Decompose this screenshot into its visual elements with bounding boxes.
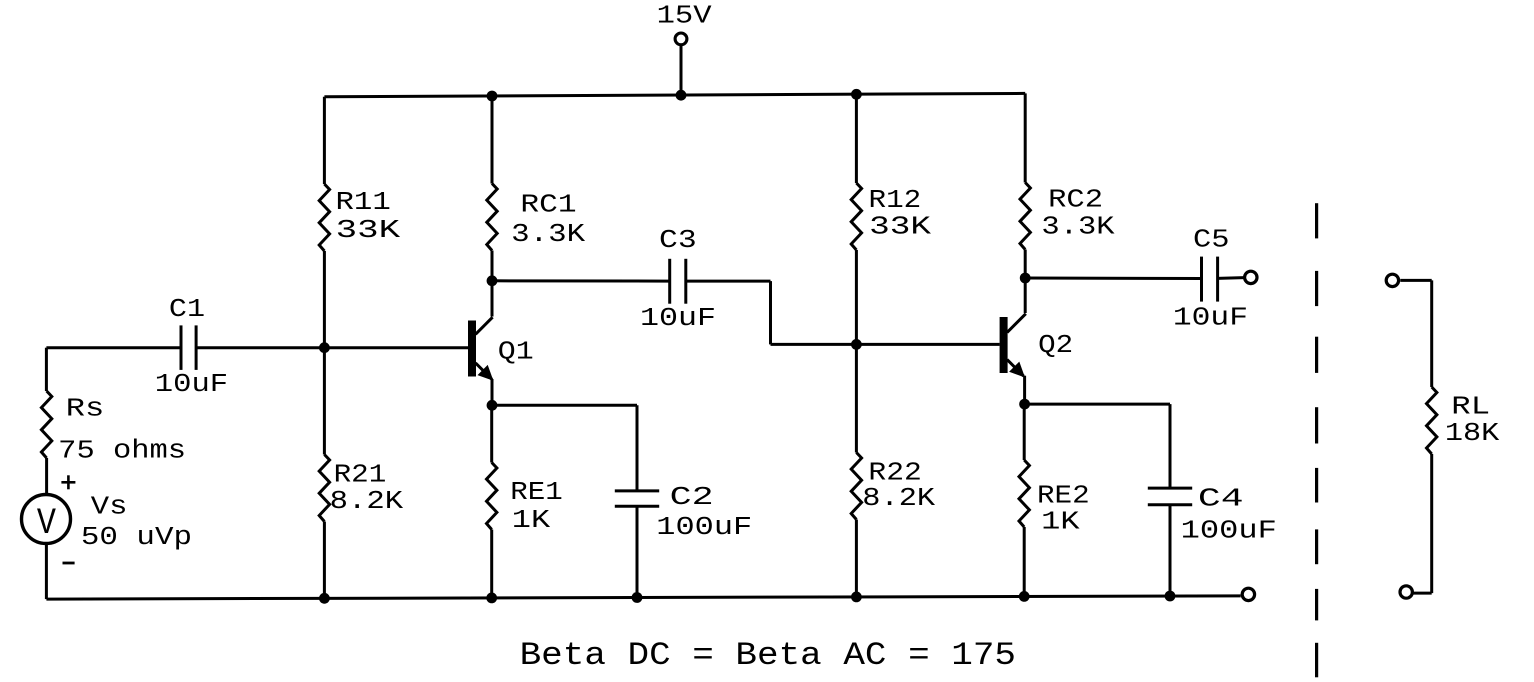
junction dot ground / C2 (632, 592, 643, 603)
wire C2 bottom lead (636, 506, 639, 597)
capacitor C5 right plate (1216, 257, 1219, 302)
svg-text:Beta DC = Beta AC = 175: Beta DC = Beta AC = 175 (520, 637, 1016, 674)
svg-text:3.3K: 3.3K (1041, 212, 1114, 242)
svg-text:C3: C3 (659, 225, 697, 255)
svg-text:RC1: RC1 (520, 190, 576, 220)
resistor RC2 (1020, 183, 1030, 250)
wire 15V stub (680, 45, 683, 96)
polarity minus of Vs (63, 562, 75, 565)
wire source bottom to ground (45, 544, 48, 600)
junction dot node collector Q2 (1020, 273, 1031, 284)
wire RL bottom stub (1430, 454, 1433, 593)
junction dot top rail / R12 (851, 89, 862, 100)
svg-text:C2: C2 (670, 482, 714, 512)
svg-text:8.2K: 8.2K (330, 486, 404, 516)
svg-text:RL: RL (1451, 391, 1490, 421)
load terminal circle top (1386, 274, 1398, 286)
svg-text:1K: 1K (1041, 507, 1080, 537)
wire R12 top stub (855, 94, 858, 183)
svg-text:C1: C1 (169, 294, 205, 324)
wire RE1 bottom stub (490, 530, 493, 599)
wire Q2 collector lead (1024, 278, 1027, 313)
svg-text:8.2K: 8.2K (862, 483, 935, 513)
transistor Q1 emitter lead with arrow (476, 363, 493, 380)
capacitor C2 top plate (615, 489, 659, 492)
svg-text:V: V (37, 503, 56, 545)
transistor Q2 base bar (1000, 317, 1008, 373)
wire RC2 top stub (1024, 93, 1027, 182)
wire RE2 bottom stub (1023, 527, 1026, 597)
capacitor C1 left plate (180, 325, 183, 370)
junction dot ground / RE2 (1019, 591, 1030, 602)
svg-text:C4: C4 (1198, 483, 1244, 513)
ground terminal circle bottom right (1242, 588, 1254, 600)
wire R12 bottom to base node (855, 250, 858, 344)
svg-text:C5: C5 (1193, 225, 1230, 255)
capacitor C1 right plate (195, 325, 198, 370)
wire RL top lead (1400, 279, 1431, 282)
capacitor C4 bottom plate (1148, 503, 1192, 506)
wire Q1 base lead (324, 346, 468, 349)
wire corner down (769, 281, 772, 344)
load terminal circle bottom (1400, 586, 1412, 598)
wire C1 to base node Q1 (198, 346, 325, 349)
voltage source Vs circle (22, 495, 71, 544)
wire collector Q2 to C5 (1025, 277, 1201, 281)
svg-text:33K: 33K (336, 215, 401, 245)
capacitor C4 top plate (1148, 487, 1192, 490)
wire corner to base node Q2 (771, 343, 857, 346)
wire Rs to source (45, 458, 48, 495)
wire R22 top stub (855, 344, 858, 452)
wire RC1 top stub (491, 96, 494, 184)
power terminal 15V circle (675, 33, 687, 45)
resistor RC1 (487, 184, 497, 251)
wire C4 top lead (1169, 404, 1172, 488)
svg-text:50 uVp: 50 uVp (81, 522, 192, 552)
wire R21 bottom stub (323, 522, 326, 599)
wire input node to C1 (46, 346, 179, 349)
junction dot node collector Q1 (487, 275, 498, 286)
wire top supply rail (324, 93, 1025, 96)
svg-text:R11: R11 (336, 187, 391, 217)
capacitor C3 left plate (668, 259, 671, 304)
wire Q2 emitter to emitter node (1023, 376, 1026, 404)
resistor Rs (41, 391, 51, 458)
svg-text:10uF: 10uF (1173, 303, 1248, 333)
svg-text:10uF: 10uF (640, 303, 716, 333)
wire R11 top stub (323, 97, 326, 184)
wire Q1 collector lead (491, 281, 494, 317)
svg-text:1K: 1K (512, 505, 551, 535)
wire emitter Q1 to C2 (492, 404, 637, 407)
svg-text:Rs: Rs (66, 393, 105, 423)
transistor Q2 emitter lead with arrow (1007, 360, 1024, 377)
svg-text:100uF: 100uF (1181, 516, 1277, 546)
junction dot ground / C4 (1165, 591, 1176, 602)
wire source branch top (45, 348, 48, 391)
resistor R21 (319, 455, 329, 522)
output terminal circle top right (1245, 271, 1257, 283)
junction dot node emitter Q1 (487, 400, 498, 411)
resistor RE1 (487, 463, 497, 530)
svg-text:RC2: RC2 (1048, 185, 1103, 215)
junction dot ground / R21 (319, 593, 330, 604)
capacitor C3 right plate (684, 259, 687, 304)
wire C3 to corner (686, 280, 771, 283)
resistor R12 (851, 183, 861, 250)
svg-text:75 ohms: 75 ohms (58, 435, 186, 465)
transistor Q1 base bar (468, 321, 476, 377)
wire C2 top lead (636, 405, 639, 491)
wire RE2 top stub (1023, 404, 1026, 460)
svg-text:33K: 33K (869, 211, 931, 241)
wire R22 bottom stub (855, 520, 858, 598)
polarity plus of Vs (61, 481, 75, 484)
resistor RE2 (1019, 460, 1029, 527)
svg-text:Vs: Vs (91, 492, 128, 522)
wire RC1 bottom to collector node (491, 251, 494, 281)
wire RL bottom lead (1414, 592, 1432, 595)
wire R11 bottom to base node (323, 251, 326, 348)
svg-text:RE1: RE1 (510, 477, 563, 507)
svg-text:Q2: Q2 (1038, 330, 1073, 360)
junction dot node base Q1 (319, 342, 330, 353)
svg-text:Q1: Q1 (498, 337, 534, 367)
svg-text:18K: 18K (1445, 418, 1500, 448)
capacitor C5 left plate (1200, 257, 1203, 302)
wire RE1 top stub (490, 405, 493, 462)
junction dot top rail / RC1 (487, 91, 498, 102)
svg-text:10uF: 10uF (155, 369, 228, 399)
svg-text:100uF: 100uF (656, 512, 752, 542)
junction dot node emitter Q2 (1019, 399, 1030, 410)
wire collector Q1 to C3 (492, 279, 670, 282)
resistor R11 (319, 184, 329, 251)
wire C5 to output terminal (1218, 276, 1244, 280)
junction dot node base Q2 (851, 339, 862, 350)
svg-text:3.3K: 3.3K (511, 219, 585, 249)
wire C4 bottom lead (1169, 505, 1172, 596)
capacitor C2 bottom plate (615, 505, 659, 508)
wire Q1 emitter to emitter node (491, 379, 494, 405)
wire ground rail (46, 596, 1240, 599)
junction dot ground / R22 (851, 592, 862, 603)
wire R21 top stub (323, 348, 326, 455)
wire Q2 base lead (856, 343, 999, 346)
junction dot top rail / 15V (676, 90, 687, 101)
resistor R22 (851, 453, 861, 520)
wire RL top stub (1430, 280, 1433, 387)
svg-text:R21: R21 (334, 459, 387, 489)
svg-text:15V: 15V (657, 0, 712, 30)
resistor RL (1427, 387, 1437, 454)
junction dot ground / RE1 (486, 593, 497, 604)
wire emitter Q2 to C4 (1025, 403, 1170, 406)
wire RC2 bottom to collector node (1024, 250, 1027, 279)
dashed boundary line (1315, 203, 1318, 677)
